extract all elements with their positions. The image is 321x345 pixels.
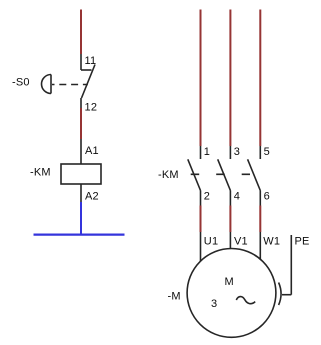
svg-text:11: 11 — [85, 55, 97, 67]
pin W1 lead — [259, 232, 261, 260]
contactor coil -KM — [61, 139, 101, 202]
wire 4 to V1 (red) — [229, 206, 231, 233]
svg-text:-S0: -S0 — [12, 77, 30, 89]
svg-text:A1: A1 — [85, 145, 99, 157]
pin U1 lead — [200, 232, 202, 262]
svg-text:4: 4 — [234, 191, 240, 203]
wire coil to neutral (blue) — [80, 202, 82, 235]
svg-text:6: 6 — [264, 191, 270, 203]
svg-text:-KM: -KM — [158, 169, 179, 181]
wire 6 to W1 (red) — [259, 206, 261, 233]
wire control feed L (red) — [80, 10, 82, 55]
svg-text:1: 1 — [204, 146, 210, 158]
svg-text:3: 3 — [211, 298, 217, 310]
wire phase L1 (red) — [200, 10, 202, 147]
svg-text:-M: -M — [168, 291, 181, 303]
wire phase L3 (red) — [259, 10, 261, 147]
mechanical linkage dashed line — [191, 173, 250, 175]
wire phase L2 (red) — [229, 10, 231, 147]
svg-text:-KM: -KM — [30, 167, 51, 179]
AC sine symbol — [236, 297, 255, 304]
contactor contact -KM 5-6 — [248, 146, 261, 206]
pushbutton NC contact -S0 — [81, 54, 95, 108]
svg-text:V1: V1 — [234, 236, 248, 248]
svg-text:2: 2 — [204, 191, 210, 203]
svg-text:U1: U1 — [204, 236, 218, 248]
svg-text:3: 3 — [234, 146, 240, 158]
svg-text:12: 12 — [85, 102, 98, 114]
svg-text:5: 5 — [264, 146, 270, 158]
neutral rail N (blue) — [34, 234, 125, 236]
wire 2 to U1 (red) — [200, 206, 202, 233]
svg-text:PE: PE — [295, 236, 310, 248]
svg-text:W1: W1 — [263, 236, 280, 248]
wire contact to coil (red) — [80, 108, 82, 139]
contactor contact -KM 1-2 — [188, 146, 201, 206]
svg-text:M: M — [225, 276, 234, 288]
motor -M body — [187, 249, 276, 338]
PE conductor — [282, 235, 291, 295]
svg-text:A2: A2 — [85, 191, 99, 203]
pin V1 lead — [229, 232, 231, 249]
pushbutton actuator -S0 — [42, 75, 88, 94]
PE terminal arc on motor frame — [279, 283, 281, 306]
contactor contact -KM 3-4 — [218, 146, 231, 206]
